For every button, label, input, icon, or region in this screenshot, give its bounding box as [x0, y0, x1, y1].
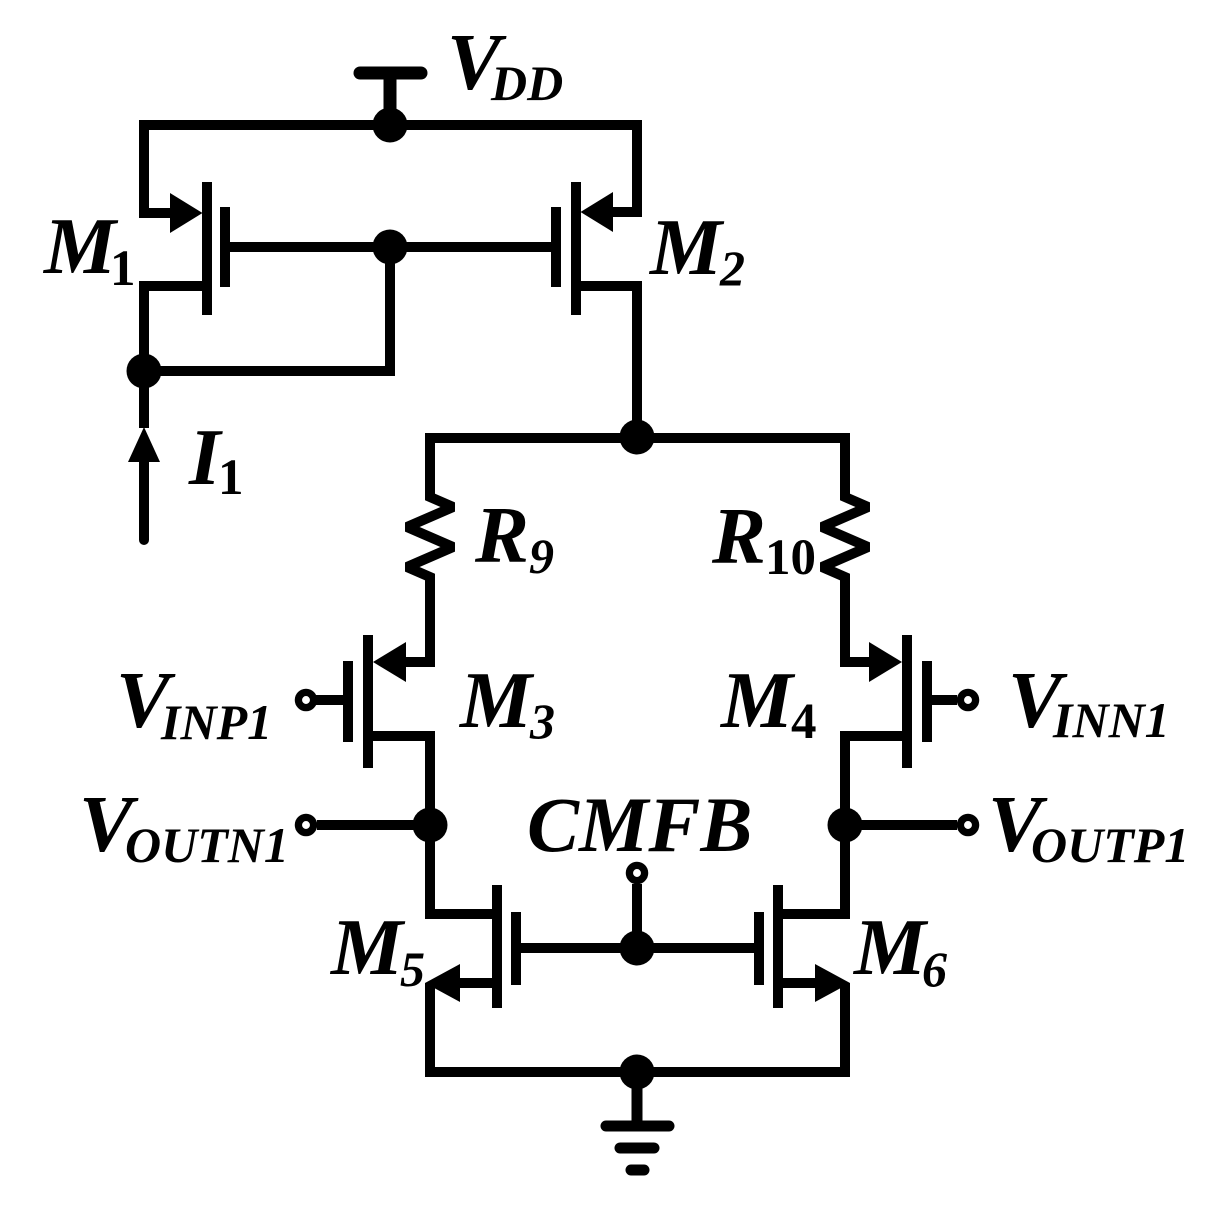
- terminal CMFB: [629, 865, 644, 948]
- node tail: [620, 420, 655, 455]
- svg-text:M: M: [648, 202, 725, 292]
- wire M6 drain: [783, 825, 845, 914]
- svg-text:M: M: [329, 902, 406, 992]
- label R10: [711, 491, 816, 586]
- svg-text:M: M: [719, 655, 796, 745]
- wire M2 gate: [390, 242, 551, 252]
- label M5: [329, 902, 425, 997]
- transistor M2: [551, 182, 613, 315]
- svg-text:3: 3: [529, 693, 555, 749]
- svg-text:1: 1: [218, 450, 244, 506]
- label VINN1: [1008, 655, 1170, 748]
- terminal VOUTN1: [298, 817, 430, 832]
- label M6: [852, 902, 947, 997]
- svg-text:1: 1: [110, 241, 136, 297]
- label VINP1: [116, 655, 272, 750]
- wire M1 drain: [144, 286, 202, 371]
- wire M6 source: [783, 978, 820, 988]
- wire M6 source down: [840, 983, 850, 1072]
- svg-text:M: M: [458, 655, 535, 745]
- resistor R10: [822, 438, 872, 662]
- wire top rail: [139, 120, 642, 130]
- wire M5 source down: [425, 983, 435, 1072]
- current source I1: [128, 371, 160, 540]
- svg-text:5: 5: [400, 941, 425, 997]
- svg-text:R: R: [474, 490, 529, 580]
- node VOUTN1: [413, 808, 448, 843]
- node VDD junction: [373, 108, 408, 143]
- transistor M1: [170, 182, 230, 315]
- transistor M3: [343, 635, 406, 768]
- svg-text:9: 9: [529, 528, 554, 584]
- svg-text:OUTP1: OUTP1: [1031, 817, 1189, 873]
- node VOUTP1: [828, 808, 863, 843]
- wire M4 source: [845, 736, 902, 825]
- terminal VINP1: [298, 692, 343, 707]
- ground: [606, 1072, 669, 1170]
- terminal VOUTP1: [845, 817, 976, 832]
- wire M5 drain: [430, 825, 492, 914]
- wire M5 source: [455, 978, 492, 988]
- node gate M1 M2: [373, 230, 408, 265]
- svg-text:OUTN1: OUTN1: [125, 817, 289, 873]
- wire M2 drain: [581, 286, 637, 437]
- transistor M5: [425, 885, 521, 1008]
- svg-text:M: M: [852, 902, 929, 992]
- svg-text:R: R: [711, 491, 766, 581]
- svg-text:2: 2: [719, 240, 745, 296]
- wire gate feedback: [144, 247, 390, 371]
- wire M1 source vertical: [144, 125, 175, 213]
- wire M5 gate: [521, 943, 637, 953]
- wire M3 source: [373, 736, 430, 825]
- svg-text:CMFB: CMFB: [527, 781, 752, 868]
- resistor R9: [403, 438, 453, 662]
- label VOUTN1: [79, 779, 289, 873]
- svg-text:INN1: INN1: [1052, 692, 1170, 748]
- svg-text:M: M: [42, 201, 119, 291]
- wire M2 source vertical: [610, 125, 637, 212]
- terminal VINN1: [932, 692, 976, 707]
- svg-text:4: 4: [791, 694, 817, 750]
- node ground: [620, 1055, 655, 1090]
- label I1: [188, 412, 244, 506]
- power symbol VDD: [360, 73, 421, 120]
- label M3: [458, 655, 555, 749]
- label VOUTP1: [988, 779, 1189, 873]
- svg-text:INP1: INP1: [160, 694, 272, 750]
- transistor M6: [754, 885, 850, 1008]
- wire M1 gate: [230, 242, 390, 252]
- label M2: [648, 202, 745, 296]
- label R9: [474, 490, 554, 584]
- wire mid rail: [425, 433, 850, 443]
- node CMFB: [620, 931, 655, 966]
- svg-text:DD: DD: [490, 55, 563, 111]
- svg-text:10: 10: [765, 530, 816, 586]
- wire bottom rail: [425, 1067, 850, 1077]
- node M1 drain: [127, 354, 162, 389]
- label CMFB: [527, 781, 752, 868]
- transistor M4: [869, 635, 932, 768]
- label M1: [42, 201, 136, 297]
- svg-text:6: 6: [922, 941, 947, 997]
- label VDD: [447, 17, 563, 111]
- wire M6 gate: [637, 943, 754, 953]
- label M4: [719, 655, 817, 750]
